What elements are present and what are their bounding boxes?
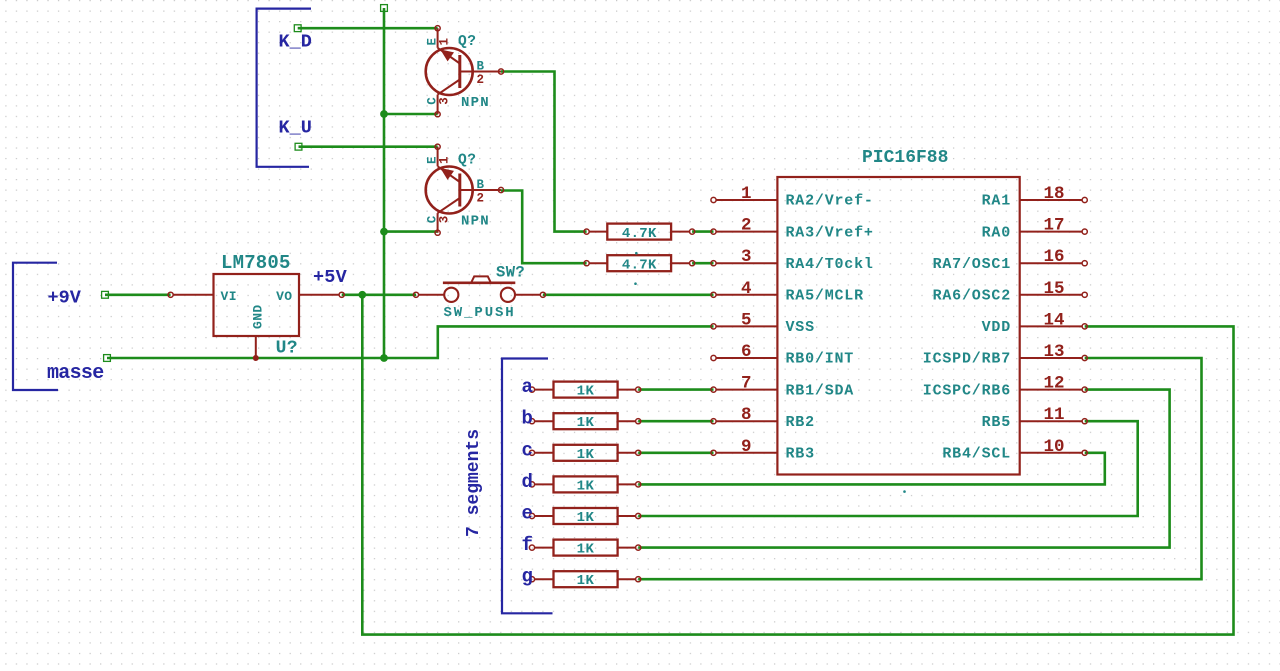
- svg-text:3: 3: [438, 97, 452, 105]
- svg-text:3: 3: [438, 216, 452, 224]
- svg-text:7 segments: 7 segments: [464, 429, 484, 537]
- svg-text:Q?: Q?: [458, 153, 476, 169]
- svg-text:B: B: [477, 60, 485, 74]
- svg-text:1K: 1K: [577, 510, 595, 526]
- svg-text:2: 2: [741, 216, 752, 236]
- svg-text:LM7805: LM7805: [221, 252, 291, 274]
- svg-text:NPN: NPN: [461, 95, 490, 111]
- svg-text:RA7/OSC1: RA7/OSC1: [933, 256, 1011, 273]
- svg-text:RB1/SDA: RB1/SDA: [786, 382, 855, 399]
- svg-text:masse: masse: [47, 362, 104, 385]
- svg-text:+5V: +5V: [313, 267, 348, 288]
- svg-text:K_D: K_D: [279, 31, 312, 52]
- svg-text:1K: 1K: [577, 415, 595, 431]
- svg-text:NPN: NPN: [461, 214, 490, 230]
- svg-text:15: 15: [1044, 279, 1065, 299]
- svg-text:11: 11: [1044, 405, 1065, 425]
- svg-text:1K: 1K: [577, 478, 595, 494]
- svg-text:g: g: [522, 566, 533, 588]
- svg-text:8: 8: [741, 405, 752, 425]
- svg-text:RA1: RA1: [982, 193, 1011, 210]
- svg-text:12: 12: [1044, 374, 1065, 394]
- svg-text:RB0/INT: RB0/INT: [786, 351, 855, 368]
- svg-text:GND: GND: [250, 304, 265, 329]
- svg-text:RA0: RA0: [982, 224, 1011, 241]
- svg-text:Q?: Q?: [458, 34, 476, 50]
- svg-text:VDD: VDD: [982, 319, 1011, 336]
- svg-text:13: 13: [1044, 342, 1065, 362]
- svg-text:4: 4: [741, 279, 752, 299]
- svg-text:U?: U?: [276, 339, 298, 359]
- svg-text:f: f: [522, 534, 533, 556]
- svg-text:VSS: VSS: [786, 319, 815, 336]
- svg-text:1: 1: [438, 38, 452, 46]
- svg-text:2: 2: [477, 192, 485, 206]
- svg-text:1K: 1K: [577, 447, 595, 463]
- svg-text:1K: 1K: [577, 384, 595, 400]
- svg-text:b: b: [522, 408, 533, 430]
- svg-text:+9V: +9V: [48, 287, 82, 308]
- svg-text:RB3: RB3: [786, 446, 815, 463]
- svg-text:5: 5: [741, 310, 752, 330]
- svg-text:PIC16F88: PIC16F88: [862, 148, 948, 168]
- svg-text:VI: VI: [221, 289, 237, 304]
- svg-text:ICSPC/RB6: ICSPC/RB6: [923, 382, 1011, 399]
- svg-text:ICSPD/RB7: ICSPD/RB7: [923, 351, 1011, 368]
- svg-text:RB2: RB2: [786, 414, 815, 431]
- svg-text:4.7K: 4.7K: [622, 257, 657, 273]
- svg-text:7: 7: [741, 374, 752, 394]
- svg-text:e: e: [522, 503, 533, 525]
- svg-text:9: 9: [741, 437, 752, 457]
- svg-text:RA3/Vref+: RA3/Vref+: [786, 224, 874, 241]
- svg-text:K_U: K_U: [279, 117, 312, 138]
- svg-text:SW?: SW?: [496, 264, 525, 282]
- svg-text:16: 16: [1044, 247, 1065, 267]
- svg-text:6: 6: [741, 342, 752, 362]
- svg-text:4.7K: 4.7K: [622, 226, 657, 242]
- svg-text:14: 14: [1044, 310, 1065, 330]
- svg-text:VO: VO: [276, 289, 292, 304]
- svg-text:1: 1: [438, 156, 452, 164]
- svg-text:a: a: [522, 376, 533, 398]
- svg-text:18: 18: [1044, 184, 1065, 204]
- svg-text:1K: 1K: [577, 573, 595, 589]
- svg-text:RA2/Vref-: RA2/Vref-: [786, 193, 874, 210]
- svg-text:RB4/SCL: RB4/SCL: [942, 446, 1011, 463]
- svg-text:3: 3: [741, 247, 752, 267]
- svg-text:RA6/OSC2: RA6/OSC2: [933, 288, 1011, 305]
- svg-text:1: 1: [741, 184, 752, 204]
- svg-text:2: 2: [477, 73, 485, 87]
- svg-text:RB5: RB5: [982, 414, 1011, 431]
- svg-text:17: 17: [1044, 216, 1065, 236]
- svg-text:RA5/MCLR: RA5/MCLR: [786, 288, 864, 305]
- svg-text:1K: 1K: [577, 542, 595, 558]
- svg-text:d: d: [522, 471, 533, 493]
- svg-text:SW_PUSH: SW_PUSH: [444, 305, 516, 321]
- svg-text:RA4/T0ckl: RA4/T0ckl: [786, 256, 874, 273]
- svg-text:B: B: [477, 178, 485, 192]
- svg-text:10: 10: [1044, 437, 1065, 457]
- svg-text:c: c: [522, 439, 533, 461]
